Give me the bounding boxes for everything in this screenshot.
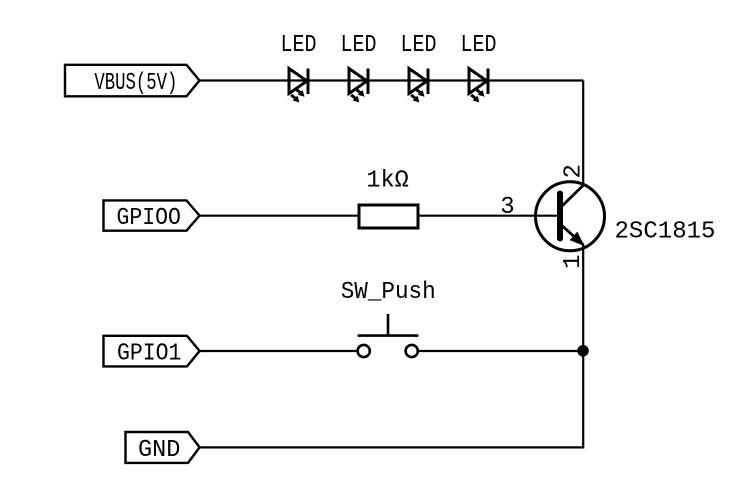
svg-text:LED: LED [341,32,377,59]
flag VBUS(5V) [65,65,200,97]
svg-text:VBUS(5V): VBUS(5V) [94,70,177,97]
wire switch to junction [418,350,583,352]
wire bottom GND [200,446,585,448]
LED D3 [409,69,428,102]
wire right vertical collector [582,81,584,187]
svg-text:1kΩ: 1kΩ [366,168,408,195]
flag GPIO1 [104,336,200,367]
resistor R1 [359,205,418,228]
svg-text:GND: GND [138,437,180,464]
wire GPIO0 to resistor [200,215,358,217]
wire resistor to base [420,215,561,217]
svg-text:LED: LED [461,32,497,59]
svg-text:1: 1 [560,254,587,268]
LED D2 [349,69,368,102]
wire GPIO1 to switch [200,350,358,352]
svg-text:LED: LED [281,32,317,59]
svg-text:GPIO1: GPIO1 [117,340,182,367]
svg-text:GPIOO: GPIOO [116,205,181,232]
svg-text:LED: LED [401,32,437,59]
flag GPIO0 [104,200,200,230]
LED D4 [469,69,488,102]
svg-text:2: 2 [561,164,588,178]
svg-text:3: 3 [500,194,514,221]
junction node [577,345,589,357]
wire top VBUS to right corner [200,79,584,81]
transistor Q1 2SC1815 [536,182,605,251]
switch SW_Push [358,314,419,357]
svg-text:SW_Push: SW_Push [341,279,436,306]
wire right vertical emitter to GND corner [582,245,584,448]
flag GND [126,432,200,463]
svg-text:2SC1815: 2SC1815 [615,219,716,246]
LED D1 [289,69,308,102]
